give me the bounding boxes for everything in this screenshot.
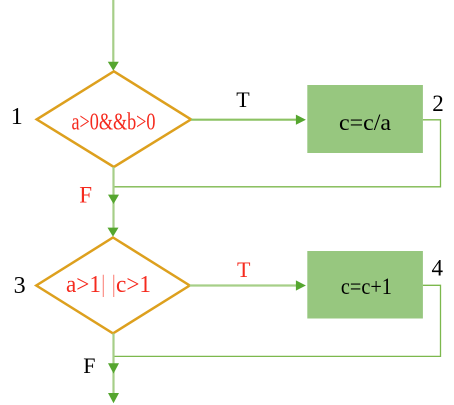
arrowhead into decision 2 [108,228,119,237]
decision diamond 2 [36,238,189,334]
wire: F branch from decision 1 down to decision 2 [112,167,114,229]
wire: T branch from decision 1 to process 2 [191,119,297,121]
svg-text:4: 4 [432,255,444,280]
svg-text:F: F [83,353,95,378]
wire: return loop from process 2 back to main line [114,120,441,187]
svg-text:a>1| |c>1: a>1| |c>1 [66,272,151,298]
process box 2: c=c/a [307,85,423,153]
arrowhead on F branch below junction 1 [108,195,119,204]
svg-text:c=c/a: c=c/a [339,110,391,135]
wire: F branch exit from decision 2 [112,333,114,395]
arrowhead into decision 1 [108,62,119,71]
wire: return loop from process 4 back to main line [114,285,441,356]
arrowhead: final exit arrow [108,393,119,403]
wire: entry line into decision 1 [112,0,114,63]
svg-text:c=c+1: c=c+1 [341,274,392,299]
svg-text:2: 2 [432,91,444,116]
arrowhead into process 4 [296,280,306,290]
svg-text:T: T [236,87,250,112]
process box 4: c=c+1 [307,251,423,319]
svg-text:3: 3 [14,273,26,299]
arrowhead into process 2 [296,115,306,125]
wire: T branch from decision 2 to process 4 [190,284,297,286]
arrowhead on F branch below junction 2 [108,363,119,373]
svg-text:a>0&&b>0: a>0&&b>0 [72,109,156,135]
decision diamond 1 [37,71,191,167]
svg-text:1: 1 [11,104,23,130]
svg-text:F: F [79,183,92,208]
svg-text:T: T [237,257,251,282]
